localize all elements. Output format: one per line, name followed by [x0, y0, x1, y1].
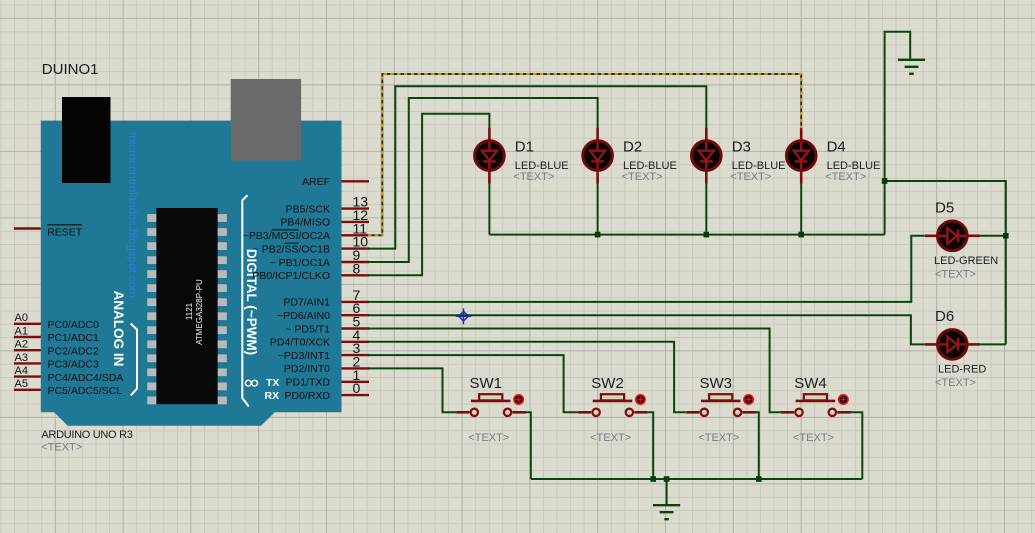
wire D2 cathode to bus [597, 183, 599, 235]
svg-text:TX: TX [266, 377, 279, 389]
wire gnd stem [666, 479, 668, 505]
svg-text:A3: A3 [15, 352, 28, 364]
svg-text:<TEXT>: <TEXT> [468, 432, 509, 444]
pin A2 [14, 349, 41, 351]
svg-text:PD0/RXD: PD0/RXD [284, 390, 330, 402]
svg-text:SW2: SW2 [591, 375, 624, 392]
pin 2 (PD2) [342, 367, 370, 369]
svg-text:D4: D4 [827, 139, 846, 156]
bracket digital [242, 195, 249, 406]
svg-text:PB4/MISO: PB4/MISO [280, 217, 330, 229]
svg-text:PD2/INT0: PD2/INT0 [284, 363, 330, 375]
LED D2 [583, 128, 613, 184]
wire pin10 to D3 [368, 86, 706, 248]
svg-text:PC2/ADC2: PC2/ADC2 [48, 345, 100, 357]
svg-text:<TEXT>: <TEXT> [513, 171, 554, 183]
svg-text:PB5/SCK: PB5/SCK [286, 203, 330, 215]
svg-text:1121: 1121 [185, 302, 194, 320]
svg-text:LED-GREEN: LED-GREEN [934, 255, 998, 267]
svg-text:SW4: SW4 [794, 375, 827, 392]
svg-text:SW1: SW1 [470, 375, 503, 392]
LED D6 [925, 330, 980, 360]
svg-text:~PB3/MOSI/OC2A: ~PB3/MOSI/OC2A [243, 230, 330, 242]
svg-text:PC0/ADC0: PC0/ADC0 [48, 319, 100, 331]
arduino board DUINO1 body [41, 121, 342, 426]
svg-text:<TEXT>: <TEXT> [730, 171, 771, 183]
wire pin2 to SW1 [368, 368, 456, 412]
switch SW2 [578, 411, 591, 414]
pin 13 (PB5) [342, 207, 370, 209]
wire D3 cathode to bus [705, 183, 707, 235]
pin 6 (PD6) [342, 314, 370, 316]
svg-text:A5: A5 [15, 378, 28, 390]
junction D3 bus [704, 232, 710, 238]
bracket analog [131, 324, 137, 396]
wire bottom ground bus [531, 478, 863, 480]
junction D4 bus [798, 232, 804, 238]
LED D3 [692, 128, 722, 184]
pin 1 (PD1) [342, 381, 370, 383]
svg-text:A1: A1 [15, 325, 28, 337]
svg-text:<TEXT>: <TEXT> [935, 377, 976, 389]
svg-text:RX: RX [265, 390, 280, 402]
svg-text:PB0/ICP1/CLKO: PB0/ICP1/CLKO [252, 270, 330, 282]
svg-text:PD7/AIN1: PD7/AIN1 [283, 297, 330, 309]
svg-text:~ PD5/T1: ~ PD5/T1 [285, 323, 330, 335]
pin 5 (PD5) [342, 327, 370, 329]
svg-text:<TEXT>: <TEXT> [935, 269, 976, 281]
svg-text:PD1/TXD: PD1/TXD [286, 377, 331, 389]
wire pin4 to SW3 [368, 342, 686, 413]
junction gnd stem [664, 476, 670, 482]
svg-text:0: 0 [353, 380, 361, 396]
svg-text:<TEXT>: <TEXT> [41, 442, 82, 454]
svg-text:SW3: SW3 [700, 375, 733, 392]
svg-text:PC4/ADC4/SDA: PC4/ADC4/SDA [48, 372, 124, 384]
wire pin9 to D2 [368, 98, 598, 262]
svg-text:D2: D2 [623, 139, 642, 156]
svg-text:ATMEGA328P-PU: ATMEGA328P-PU [195, 279, 204, 345]
pin A3 [14, 362, 41, 364]
pin A1 [14, 336, 41, 338]
pin 10 (PB2) [342, 247, 370, 249]
switch SW4 [781, 411, 794, 414]
wire branch to D5/D6 column [885, 181, 1006, 344]
wire D6 cathode to column [980, 343, 1006, 345]
junction SW2 bus [650, 476, 656, 482]
svg-text:D6: D6 [935, 308, 954, 325]
svg-text:AREF: AREF [302, 176, 330, 188]
svg-text:A0: A0 [15, 312, 28, 324]
pin 11 (PB3) [342, 234, 370, 236]
svg-text:<TEXT>: <TEXT> [698, 432, 739, 444]
svg-text:PC5/ADC5/SCL: PC5/ADC5/SCL [48, 385, 123, 397]
wire pin6 to D6 [368, 315, 925, 344]
svg-text:DIGITAL (~PWM): DIGITAL (~PWM) [244, 249, 259, 355]
pin 4 (PD4) [342, 341, 370, 343]
pin A4 [14, 375, 41, 377]
svg-text:PD4/T0/XCK: PD4/T0/XCK [270, 337, 330, 349]
pin A5 [14, 389, 41, 391]
wire SW1 to ground bus [526, 412, 531, 479]
svg-text:A2: A2 [15, 339, 28, 351]
switch SW1 [456, 411, 469, 414]
wire D5 cathode to column [980, 235, 1006, 237]
pin 9 (PB1) [342, 261, 370, 263]
svg-text:<TEXT>: <TEXT> [622, 171, 663, 183]
svg-text:<TEXT>: <TEXT> [590, 432, 631, 444]
wire D1 cathode to bus [488, 183, 490, 235]
svg-text:PC1/ADC1: PC1/ADC1 [48, 332, 100, 344]
pin A0 [14, 323, 41, 325]
svg-text:<TEXT>: <TEXT> [793, 432, 834, 444]
pin AREF (AREF) [342, 180, 370, 182]
svg-text:D1: D1 [515, 139, 534, 156]
junction D5 [1003, 233, 1009, 239]
svg-text:microcontrolandos.blogspot.com: microcontrolandos.blogspot.com [126, 132, 138, 298]
svg-text:ARDUINO UNO R3: ARDUINO UNO R3 [41, 429, 132, 441]
svg-text:8: 8 [353, 260, 361, 276]
svg-text:ANALOG IN: ANALOG IN [111, 291, 126, 367]
svg-text:D5: D5 [935, 200, 954, 217]
wire pin11 to D4 (selected, dashed) [368, 74, 801, 235]
logo squiggle [245, 380, 251, 386]
USB connector [62, 97, 111, 183]
svg-text:RESET: RESET [47, 227, 83, 239]
LED D4 [786, 128, 816, 184]
svg-text:A4: A4 [15, 365, 28, 377]
chip ATMEGA328P-PU body [156, 208, 217, 404]
svg-text:<TEXT>: <TEXT> [825, 171, 866, 183]
wire SW3 to ground bus [756, 412, 759, 479]
pin 0 (PD0) [342, 394, 370, 396]
svg-text:~PD3/INT1: ~PD3/INT1 [278, 350, 330, 362]
pin 8 (PB0) [342, 274, 370, 276]
svg-text:~ PB1/OC1A: ~ PB1/OC1A [270, 257, 330, 269]
pin 12 (PB4) [342, 221, 370, 223]
wire pin5 to SW4 [368, 329, 781, 413]
cursor crosshair [456, 308, 472, 324]
ground bottom [653, 505, 680, 519]
switch SW3 [686, 411, 699, 414]
ground top right [898, 60, 925, 74]
junction D2 bus [595, 232, 601, 238]
wire pin7 to D5 [368, 236, 925, 302]
pin 3 (PD3) [342, 354, 370, 356]
svg-text:~PD6/AIN0: ~PD6/AIN0 [277, 310, 330, 322]
svg-text:DUINO1: DUINO1 [42, 61, 99, 78]
wire pin3 to SW2 [368, 355, 578, 412]
svg-text:D3: D3 [732, 139, 751, 156]
wire SW4 to ground bus [849, 412, 862, 479]
wire pin8 to D1 [368, 114, 489, 276]
wire LED ground bus [489, 234, 884, 236]
pin 7 (PD7) [342, 301, 370, 303]
LED D5 [925, 221, 980, 251]
svg-text:LED-RED: LED-RED [938, 364, 986, 376]
junction SW3 bus [756, 476, 762, 482]
wire D4 cathode to bus [800, 183, 802, 235]
wire bus to top ground [885, 32, 911, 235]
power connector [231, 79, 301, 161]
wire SW2 to ground bus [648, 412, 653, 479]
svg-text:~ PB2/SS/OC1B: ~ PB2/SS/OC1B [253, 243, 330, 255]
junction branch [882, 178, 888, 184]
pin RESET [14, 227, 41, 229]
svg-text:PC3/ADC3: PC3/ADC3 [48, 359, 100, 371]
LED D1 [475, 128, 505, 184]
chip ATMEGA328P-PU legs [147, 214, 156, 222]
